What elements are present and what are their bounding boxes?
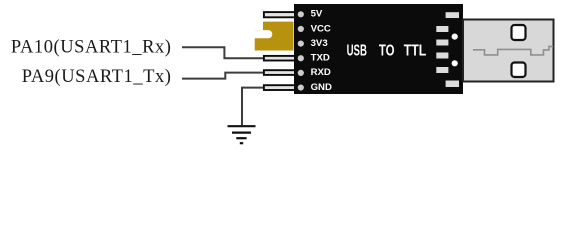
svg-text:GND: GND (311, 82, 332, 93)
via right 2 (452, 60, 458, 66)
pin TXD stub (264, 56, 296, 61)
svg-text:PA9(USART1_Tx): PA9(USART1_Tx) (22, 67, 172, 87)
pad right 4 (436, 53, 448, 59)
pin GND stub (264, 85, 296, 90)
wire PA9 to RXD (182, 73, 264, 79)
pin hole 5V (298, 11, 304, 17)
USB plug shell (463, 20, 554, 82)
pin hole RXD (298, 70, 304, 76)
via right 1 (452, 34, 458, 40)
pin hole TXD (298, 55, 304, 61)
jumper cap slot (250, 30, 272, 38)
pin RXD stub (264, 70, 296, 75)
wire PA10 to TXD (182, 47, 264, 58)
USB shell seam (473, 46, 553, 55)
pin 5V stub (264, 12, 296, 17)
pin hole GND (298, 84, 304, 90)
svg-text:VCC: VCC (311, 23, 331, 34)
wire GND to ground (242, 88, 264, 126)
svg-text:TTL: TTL (404, 43, 427, 60)
svg-text:USB: USB (347, 43, 367, 60)
pad right bottom (446, 81, 459, 88)
svg-text:3V3: 3V3 (311, 38, 328, 49)
svg-text:TXD: TXD (311, 53, 330, 64)
pad right top (446, 12, 459, 18)
module PCB body (294, 4, 463, 94)
pad right 3 (436, 40, 448, 46)
ground (228, 126, 256, 143)
USB contact hole bottom (512, 63, 526, 78)
pin hole 3V3 (298, 41, 304, 47)
pad right 5 (436, 67, 448, 73)
svg-text:5V: 5V (311, 9, 323, 20)
svg-text:TO: TO (379, 43, 395, 60)
pad right 2 (436, 26, 448, 32)
USB contact hole top (512, 25, 526, 40)
jumper cap on VCC-3V3 upper body (263, 22, 294, 34)
pin hole VCC (298, 26, 304, 32)
svg-text:RXD: RXD (311, 67, 331, 78)
svg-text:PA10(USART1_Rx): PA10(USART1_Rx) (11, 37, 172, 57)
module silkscreen USB TO TTL (347, 43, 427, 60)
jumper cap lower body (255, 30, 294, 51)
